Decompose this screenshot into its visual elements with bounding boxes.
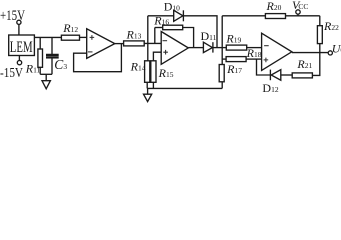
svg-text:LEM: LEM (10, 39, 33, 56)
svg-text:VCC: VCC (292, 0, 308, 12)
svg-text:R20: R20 (266, 0, 282, 13)
svg-text:U0: U0 (332, 42, 341, 56)
svg-text:-15V: -15V (0, 65, 23, 80)
svg-text:+15V: +15V (0, 8, 25, 24)
